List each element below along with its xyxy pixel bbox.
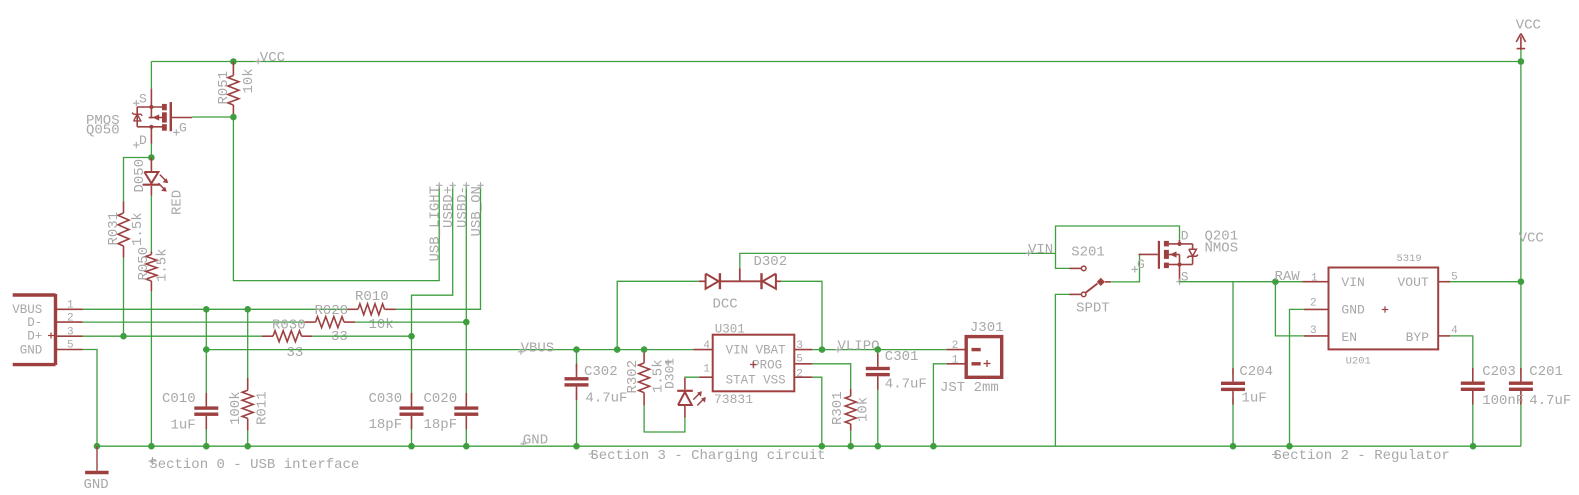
- svg-text:G: G: [1137, 257, 1145, 272]
- svg-text:RED: RED: [170, 190, 186, 215]
- USB connector body: [13, 294, 56, 365]
- resistor R302: [625, 350, 667, 406]
- capacitor C201: [1509, 364, 1571, 446]
- net label USBD-: [455, 182, 471, 228]
- svg-text:1uF: 1uF: [171, 418, 196, 434]
- svg-text:4: 4: [1451, 325, 1458, 337]
- svg-text:18pF: 18pF: [369, 417, 403, 433]
- diode D302: [699, 254, 787, 313]
- IC U301 box: [713, 335, 795, 392]
- svg-text:J301: J301: [970, 320, 1004, 336]
- junction R051/gate: [230, 114, 237, 121]
- junction VCC/R051: [230, 58, 237, 65]
- wire PROG net: [812, 364, 850, 389]
- junction pin1/R011: [244, 306, 251, 313]
- U201 pin name VIN: [1341, 275, 1364, 290]
- wire BYP to C203: [1450, 336, 1473, 375]
- junction VBUS/D302 left: [614, 346, 621, 353]
- svg-text:R010: R010: [355, 289, 389, 305]
- capacitor C020: [424, 391, 479, 433]
- junction GND/VSS: [819, 443, 826, 450]
- section 3 text: [589, 448, 826, 464]
- section 0 text: [149, 457, 360, 473]
- junction VBUS/R302: [641, 346, 648, 353]
- svg-text:VIN VBAT: VIN VBAT: [726, 343, 787, 357]
- svg-text:VCC: VCC: [260, 50, 285, 66]
- wire VIN net: [740, 253, 1056, 268]
- junction VBUS/C302: [573, 346, 580, 353]
- net label RAW: [1275, 269, 1301, 285]
- svg-text:2: 2: [1310, 298, 1317, 310]
- ground symbol GND: [84, 446, 109, 493]
- svg-text:R031: R031: [106, 212, 122, 246]
- resistor R030: [262, 317, 312, 361]
- J301 pin 2 stub: [947, 340, 967, 352]
- wire USBD- vertical: [465, 186, 467, 400]
- label U301: [715, 323, 745, 337]
- resistor R301: [830, 389, 871, 431]
- svg-text:USB_ON: USB_ON: [469, 186, 485, 236]
- junction VOUT/VCC: [1518, 278, 1525, 285]
- svg-text:Q050: Q050: [86, 123, 120, 139]
- USB pin 2 stub: [57, 313, 83, 325]
- wire D302 right leg: [781, 281, 822, 349]
- svg-text:C203: C203: [1482, 364, 1516, 380]
- label PMOS Q050: [86, 113, 120, 139]
- svg-text:10k: 10k: [369, 317, 394, 333]
- net label VCC top-left: [255, 50, 285, 66]
- junction GND/R301: [847, 443, 854, 450]
- resistor R051: [216, 62, 257, 118]
- wire C010 column: [205, 309, 207, 446]
- junction VLIPO/C301: [875, 346, 882, 353]
- U201 pin name BYP: [1406, 330, 1430, 345]
- junction GND/U201: [1286, 443, 1293, 450]
- IC U201 box: [1329, 268, 1439, 350]
- U301 pin 2 stub: [794, 368, 812, 380]
- svg-text:D: D: [1181, 229, 1189, 244]
- junction GND/C204: [1230, 443, 1237, 450]
- svg-text:2: 2: [796, 368, 803, 380]
- connector J301 box: [966, 337, 1002, 378]
- net label GND: [520, 433, 548, 449]
- svg-text:VBUS: VBUS: [521, 341, 555, 357]
- wire R031 to D+ line: [123, 258, 125, 337]
- wire USBD+ riser: [412, 186, 453, 336]
- wire D301 loop: [644, 406, 685, 432]
- svg-text:Section 3 - Charging circuit: Section 3 - Charging circuit: [590, 448, 825, 464]
- wire USB_ON net: [396, 186, 481, 309]
- wire VCC vertical: [1520, 50, 1522, 375]
- wire VBUS rail: [206, 349, 693, 351]
- resistor R050: [136, 247, 170, 291]
- label 5319: [1397, 253, 1422, 265]
- wire GND pin5: [83, 350, 98, 447]
- U201 pin 4 stub: [1438, 325, 1458, 337]
- junction GND/C301: [875, 443, 882, 450]
- wire VIN branch up: [1056, 226, 1180, 253]
- U201 pin 3 stub: [1304, 325, 1329, 337]
- svg-text:R030: R030: [272, 317, 306, 333]
- USB pin name VBUS: [12, 303, 42, 317]
- svg-text:3: 3: [796, 340, 803, 352]
- USB pin 3 stub: [57, 326, 83, 338]
- junction VLIPO/D302 right: [819, 346, 826, 353]
- svg-text:VBUS: VBUS: [12, 303, 42, 317]
- U201 pin name EN: [1341, 330, 1357, 345]
- label J301: [970, 320, 1004, 336]
- wire GND pin2: [1290, 309, 1304, 446]
- capacitor C203: [1461, 364, 1524, 446]
- wire VBUS pin1 line: [83, 308, 348, 310]
- junction GND/J301: [930, 443, 937, 450]
- wire R301 to GND: [850, 431, 852, 447]
- resistor R031: [106, 202, 146, 258]
- svg-text:VIN: VIN: [1028, 242, 1053, 258]
- wire VOUT to VCC: [1450, 281, 1521, 283]
- svg-text:R011: R011: [255, 391, 271, 425]
- wire EN tie: [1275, 282, 1304, 336]
- wire RAW line: [1180, 281, 1303, 283]
- USB pin name GND: [20, 343, 43, 357]
- svg-text:R050: R050: [136, 247, 152, 281]
- resistor R020: [305, 303, 356, 345]
- USB pin name D-: [27, 316, 42, 330]
- junction drain/LED: [148, 154, 155, 161]
- svg-text:Section 2 - Regulator: Section 2 - Regulator: [1273, 448, 1449, 464]
- svg-text:18pF: 18pF: [424, 417, 458, 433]
- svg-text:U301: U301: [715, 323, 745, 337]
- svg-text:C010: C010: [162, 391, 196, 407]
- svg-text:C301: C301: [885, 349, 919, 365]
- svg-text:GND: GND: [20, 343, 43, 357]
- junction GND/R050: [148, 443, 155, 450]
- svg-text:10k: 10k: [241, 68, 257, 93]
- wire VLIPO line: [812, 349, 946, 351]
- wire VCC rail top: [151, 61, 1521, 63]
- svg-text:Section 0 - USB interface: Section 0 - USB interface: [149, 457, 359, 473]
- junction GND/C010: [203, 443, 210, 450]
- svg-text:5: 5: [796, 354, 803, 366]
- net label USBD+: [441, 182, 457, 228]
- svg-text:1: 1: [67, 300, 74, 312]
- wire LED to R050: [150, 196, 152, 255]
- svg-text:2: 2: [67, 313, 74, 325]
- wire switch pole to GND: [1055, 294, 1069, 446]
- wire C020 to GND: [465, 416, 467, 446]
- svg-text:NMOS: NMOS: [1205, 241, 1239, 257]
- capacitor C301: [866, 349, 927, 446]
- junction pin1/C010: [203, 306, 210, 313]
- junction GND/R011: [244, 443, 251, 450]
- resistor R010: [347, 289, 396, 333]
- svg-text:JST 2mm: JST 2mm: [940, 380, 999, 396]
- wire VSS to GND: [812, 377, 821, 446]
- svg-text:1.5k: 1.5k: [155, 248, 171, 282]
- svg-text:RAW: RAW: [1275, 269, 1301, 285]
- svg-text:100k: 100k: [228, 391, 244, 425]
- net label VBUS: [518, 341, 554, 357]
- svg-text:4.7uF: 4.7uF: [585, 391, 627, 407]
- svg-text:GND: GND: [1341, 303, 1365, 318]
- svg-text:DCC: DCC: [713, 297, 738, 313]
- wire STAT to D301: [685, 376, 699, 378]
- wire VCC to PMOS source: [150, 62, 152, 89]
- wire drain to R031 branch: [124, 158, 152, 202]
- svg-text:STAT VSS: STAT VSS: [726, 373, 786, 387]
- junction D+/C030: [408, 333, 415, 340]
- J301 pin 1 stub: [947, 354, 967, 366]
- svg-text:S201: S201: [1071, 245, 1105, 261]
- svg-text:33: 33: [287, 345, 304, 361]
- svg-text:PROG: PROG: [752, 358, 782, 372]
- svg-text:GND: GND: [523, 433, 548, 449]
- svg-text:VOUT: VOUT: [1398, 275, 1429, 290]
- wire VIN branch down: [1056, 253, 1070, 268]
- svg-text:33: 33: [331, 329, 348, 345]
- wire R050 to GND rail: [150, 291, 152, 446]
- svg-text:1: 1: [1311, 273, 1318, 285]
- U201 pin 2 stub: [1304, 298, 1329, 310]
- svg-text:C204: C204: [1239, 364, 1273, 380]
- net label VCC right: [1519, 231, 1544, 247]
- capacitor C204: [1221, 282, 1273, 447]
- wire J301 pin1 to GND: [933, 364, 946, 446]
- wire GND rail: [97, 445, 1521, 447]
- net label USB_ON: [469, 182, 485, 236]
- svg-text:3: 3: [1310, 325, 1317, 337]
- svg-text:C030: C030: [369, 391, 403, 407]
- wire C030 drop: [411, 336, 413, 399]
- wire PMOS drain down: [150, 144, 152, 158]
- LED D301: [663, 358, 706, 418]
- svg-text:R051: R051: [216, 71, 232, 105]
- capacitor C302: [565, 350, 628, 447]
- svg-text:S: S: [139, 91, 147, 106]
- wire USB_LIGHT net: [233, 117, 439, 281]
- svg-text:D050: D050: [132, 159, 148, 193]
- label Q201: [1205, 229, 1239, 257]
- junction VBUS/C010 column: [203, 346, 210, 353]
- svg-text:R301: R301: [830, 391, 846, 425]
- junction GND/C030: [408, 443, 415, 450]
- U301 pin 1 stub: [699, 364, 713, 378]
- svg-text:R302: R302: [625, 360, 641, 394]
- svg-text:1: 1: [952, 354, 959, 366]
- label U201: [1346, 356, 1371, 368]
- wire D+ pin3 line: [83, 335, 263, 337]
- wire R030 to riser: [312, 335, 411, 337]
- capacitor C030: [369, 391, 424, 433]
- svg-text:5: 5: [67, 340, 74, 352]
- junction GND/C020: [463, 443, 470, 450]
- svg-text:BYP: BYP: [1406, 330, 1430, 345]
- junction GND/pin5: [94, 443, 101, 450]
- junction GND/C302: [573, 443, 580, 450]
- junction VCC right end: [1518, 58, 1525, 65]
- junction D+/R031: [120, 333, 127, 340]
- label 73831: [714, 392, 753, 407]
- USB pin 5 stub: [57, 340, 83, 352]
- wire D302 left leg: [617, 281, 699, 349]
- junction GND/C203: [1470, 443, 1477, 450]
- svg-text:D302: D302: [754, 254, 788, 270]
- U301 pin names row3: [726, 373, 786, 387]
- U201 pin name VOUT: [1398, 275, 1429, 290]
- svg-text:D-: D-: [27, 316, 42, 330]
- LED D050: [132, 158, 186, 216]
- svg-text:D+: D+: [27, 330, 42, 344]
- svg-text:G: G: [179, 121, 187, 136]
- svg-text:4.7uF: 4.7uF: [1529, 393, 1571, 409]
- svg-text:C302: C302: [584, 364, 618, 380]
- junction D-/C020: [463, 319, 470, 326]
- capacitor C010: [162, 391, 218, 434]
- svg-text:2: 2: [952, 340, 959, 352]
- wire R020 to USBD- net: [355, 321, 466, 323]
- U201 pin 5 stub: [1438, 272, 1458, 284]
- svg-text:1: 1: [703, 364, 710, 376]
- svg-text:VCC: VCC: [1519, 231, 1544, 247]
- svg-text:3: 3: [67, 326, 74, 338]
- svg-text:EN: EN: [1341, 330, 1357, 345]
- U201 pin name GND: [1341, 303, 1388, 318]
- svg-text:C020: C020: [424, 391, 458, 407]
- U301 pin names row1: [726, 343, 787, 357]
- U201 pin 1 stub: [1303, 273, 1329, 285]
- net label USB_LIGHT: [428, 182, 444, 261]
- junction RAW/EN: [1272, 278, 1279, 285]
- transistor Q201 NMOS: [1132, 229, 1198, 285]
- U301 pin 4 stub: [693, 340, 712, 352]
- svg-text:5319: 5319: [1397, 253, 1422, 265]
- svg-text:VCC: VCC: [1516, 18, 1541, 34]
- wire D- pin2 line: [83, 321, 305, 323]
- USB pin 1 stub: [57, 300, 83, 312]
- svg-text:R020: R020: [315, 303, 349, 319]
- svg-text:1uF: 1uF: [1242, 391, 1267, 407]
- svg-text:1.5k: 1.5k: [130, 212, 146, 246]
- section 2 text: [1272, 448, 1450, 464]
- switch S201: [1070, 245, 1111, 317]
- transistor Q050 PMOS: [132, 89, 192, 149]
- svg-text:U201: U201: [1346, 356, 1371, 368]
- svg-text:4.7uF: 4.7uF: [885, 377, 927, 393]
- svg-text:C201: C201: [1529, 364, 1563, 380]
- net label VIN: [1026, 242, 1054, 258]
- svg-text:VLIPO: VLIPO: [838, 338, 880, 354]
- svg-text:VIN: VIN: [1341, 275, 1364, 290]
- svg-text:73831: 73831: [714, 392, 753, 407]
- svg-text:GND: GND: [84, 477, 109, 493]
- resistor R011: [228, 309, 271, 446]
- svg-text:4: 4: [703, 340, 710, 352]
- net label VLIPO: [835, 338, 880, 354]
- svg-text:D: D: [139, 133, 147, 148]
- svg-text:SPDT: SPDT: [1076, 301, 1110, 317]
- svg-text:100nF: 100nF: [1482, 393, 1524, 409]
- U301 pin name PROG: [750, 358, 782, 372]
- wire C030 to GND: [411, 416, 413, 446]
- USB pin name D+: [27, 330, 42, 344]
- VCC symbol top right: [1516, 18, 1541, 50]
- wire PMOS gate to R051: [192, 116, 233, 118]
- U301 pin 5 stub: [794, 354, 812, 366]
- U301 pin 3 stub: [794, 340, 812, 352]
- wire switch common to gate: [1111, 254, 1142, 282]
- svg-text:10k: 10k: [855, 397, 871, 422]
- label JST 2mm: [940, 380, 999, 396]
